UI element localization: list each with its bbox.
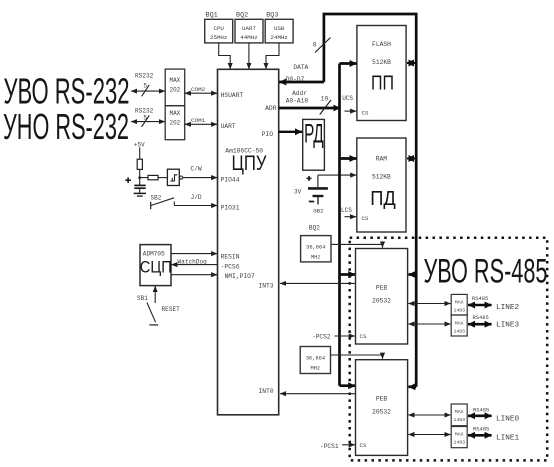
- svg-text:-PCS1: -PCS1: [320, 443, 339, 450]
- svg-text:512KB: 512KB: [372, 59, 391, 66]
- svg-text:CS: CS: [362, 109, 369, 116]
- svg-text:RS485: RS485: [473, 408, 489, 414]
- svg-text:CS: CS: [362, 215, 369, 222]
- svg-text:PEB: PEB: [376, 284, 388, 291]
- svg-text:RS485: RS485: [472, 296, 488, 302]
- svg-text:PIO44: PIO44: [221, 176, 240, 183]
- svg-text:UCS: UCS: [342, 95, 353, 102]
- svg-text:RS232: RS232: [135, 73, 154, 80]
- svg-text:LINE1: LINE1: [496, 434, 519, 442]
- svg-text:44MHz: 44MHz: [240, 34, 258, 41]
- svg-text:RS485: RS485: [473, 315, 489, 321]
- svg-text:BQ2: BQ2: [236, 11, 248, 19]
- svg-text:LINE0: LINE0: [496, 415, 519, 423]
- svg-text:SB1: SB1: [137, 295, 148, 302]
- svg-text:-PCS2: -PCS2: [312, 334, 331, 341]
- svg-text:MAX: MAX: [169, 77, 180, 84]
- svg-text:MHz: MHz: [311, 365, 321, 371]
- svg-text:SB2: SB2: [151, 195, 162, 202]
- svg-text:CS: CS: [360, 442, 367, 449]
- svg-text:ПП: ПП: [371, 73, 394, 95]
- svg-text:20532: 20532: [372, 297, 391, 304]
- svg-text:DATA: DATA: [293, 64, 308, 71]
- svg-text:+5V: +5V: [134, 141, 145, 148]
- svg-text:24MHz: 24MHz: [270, 34, 288, 41]
- svg-text:УВО RS-485: УВО RS-485: [424, 253, 548, 291]
- svg-text:RESIN: RESIN: [221, 253, 240, 260]
- svg-text:MAX: MAX: [455, 432, 464, 438]
- svg-text:MHz: MHz: [311, 255, 321, 261]
- svg-text:РД: РД: [304, 119, 324, 149]
- svg-text:PIO: PIO: [262, 131, 274, 138]
- svg-text:UART: UART: [221, 123, 236, 130]
- svg-text:NMI,PIO7: NMI,PIO7: [225, 273, 255, 280]
- svg-text:CPU: CPU: [213, 25, 224, 32]
- svg-text:A0-A18: A0-A18: [286, 97, 309, 104]
- svg-text:INT0: INT0: [258, 388, 273, 395]
- svg-text:CS: CS: [360, 333, 367, 340]
- svg-text:36,864: 36,864: [306, 245, 325, 251]
- svg-text:COM1: COM1: [191, 117, 206, 124]
- svg-text:BQ3: BQ3: [266, 11, 278, 19]
- svg-text:СЦП: СЦП: [140, 258, 172, 277]
- svg-text:BQ1: BQ1: [206, 11, 218, 19]
- svg-text:Addr: Addr: [292, 90, 307, 97]
- svg-text:MAX: MAX: [169, 110, 180, 117]
- svg-text:8: 8: [313, 42, 317, 49]
- svg-text:ADM705: ADM705: [143, 251, 165, 258]
- svg-text:LCS: LCS: [341, 207, 352, 214]
- svg-text:LINE2: LINE2: [496, 304, 519, 312]
- svg-text:C/W: C/W: [191, 166, 202, 173]
- svg-text:25MHz: 25MHz: [210, 34, 228, 41]
- svg-text:BQ2: BQ2: [309, 224, 320, 231]
- svg-text:-PCS6: -PCS6: [221, 263, 240, 270]
- svg-text:ПД: ПД: [370, 188, 396, 210]
- svg-text:1483: 1483: [453, 329, 465, 335]
- svg-text:FLASH: FLASH: [372, 41, 391, 48]
- svg-text:J/D: J/D: [191, 194, 202, 201]
- svg-text:MAX: MAX: [455, 321, 464, 327]
- svg-text:1483: 1483: [453, 440, 465, 446]
- svg-text:1483: 1483: [453, 308, 465, 314]
- svg-text:36,864: 36,864: [306, 356, 325, 362]
- svg-text:LINE3: LINE3: [496, 322, 519, 330]
- svg-text:HSUART: HSUART: [221, 92, 244, 99]
- svg-text:MAX: MAX: [455, 409, 464, 415]
- svg-text:ЦПУ: ЦПУ: [232, 151, 267, 175]
- svg-text:5: 5: [143, 115, 147, 122]
- svg-text:D0-D7: D0-D7: [286, 76, 305, 83]
- svg-text:USB: USB: [274, 25, 285, 32]
- svg-text:ADR: ADR: [265, 105, 277, 112]
- svg-text:512KB: 512KB: [372, 173, 391, 180]
- svg-text:COM2: COM2: [191, 86, 206, 93]
- svg-text:UART: UART: [242, 25, 256, 32]
- svg-text:PIO31: PIO31: [221, 204, 240, 211]
- svg-text:RS485: RS485: [473, 427, 489, 433]
- svg-text:3V: 3V: [294, 188, 302, 195]
- svg-text:RESET: RESET: [162, 306, 181, 313]
- svg-text:WatchDog: WatchDog: [178, 258, 208, 265]
- svg-text:1483: 1483: [453, 417, 465, 423]
- svg-text:5: 5: [143, 82, 147, 89]
- svg-text:INT3: INT3: [258, 283, 273, 290]
- svg-text:20532: 20532: [372, 408, 391, 415]
- svg-text:GB2: GB2: [313, 207, 324, 214]
- svg-text:УНО RS-232: УНО RS-232: [3, 106, 129, 147]
- svg-text:202: 202: [169, 119, 180, 126]
- svg-text:PEB: PEB: [376, 395, 388, 402]
- svg-text:RS232: RS232: [135, 107, 154, 114]
- svg-text:MAX: MAX: [455, 300, 464, 306]
- svg-text:19: 19: [321, 95, 329, 102]
- svg-text:RAM: RAM: [376, 155, 388, 162]
- svg-text:202: 202: [169, 86, 180, 93]
